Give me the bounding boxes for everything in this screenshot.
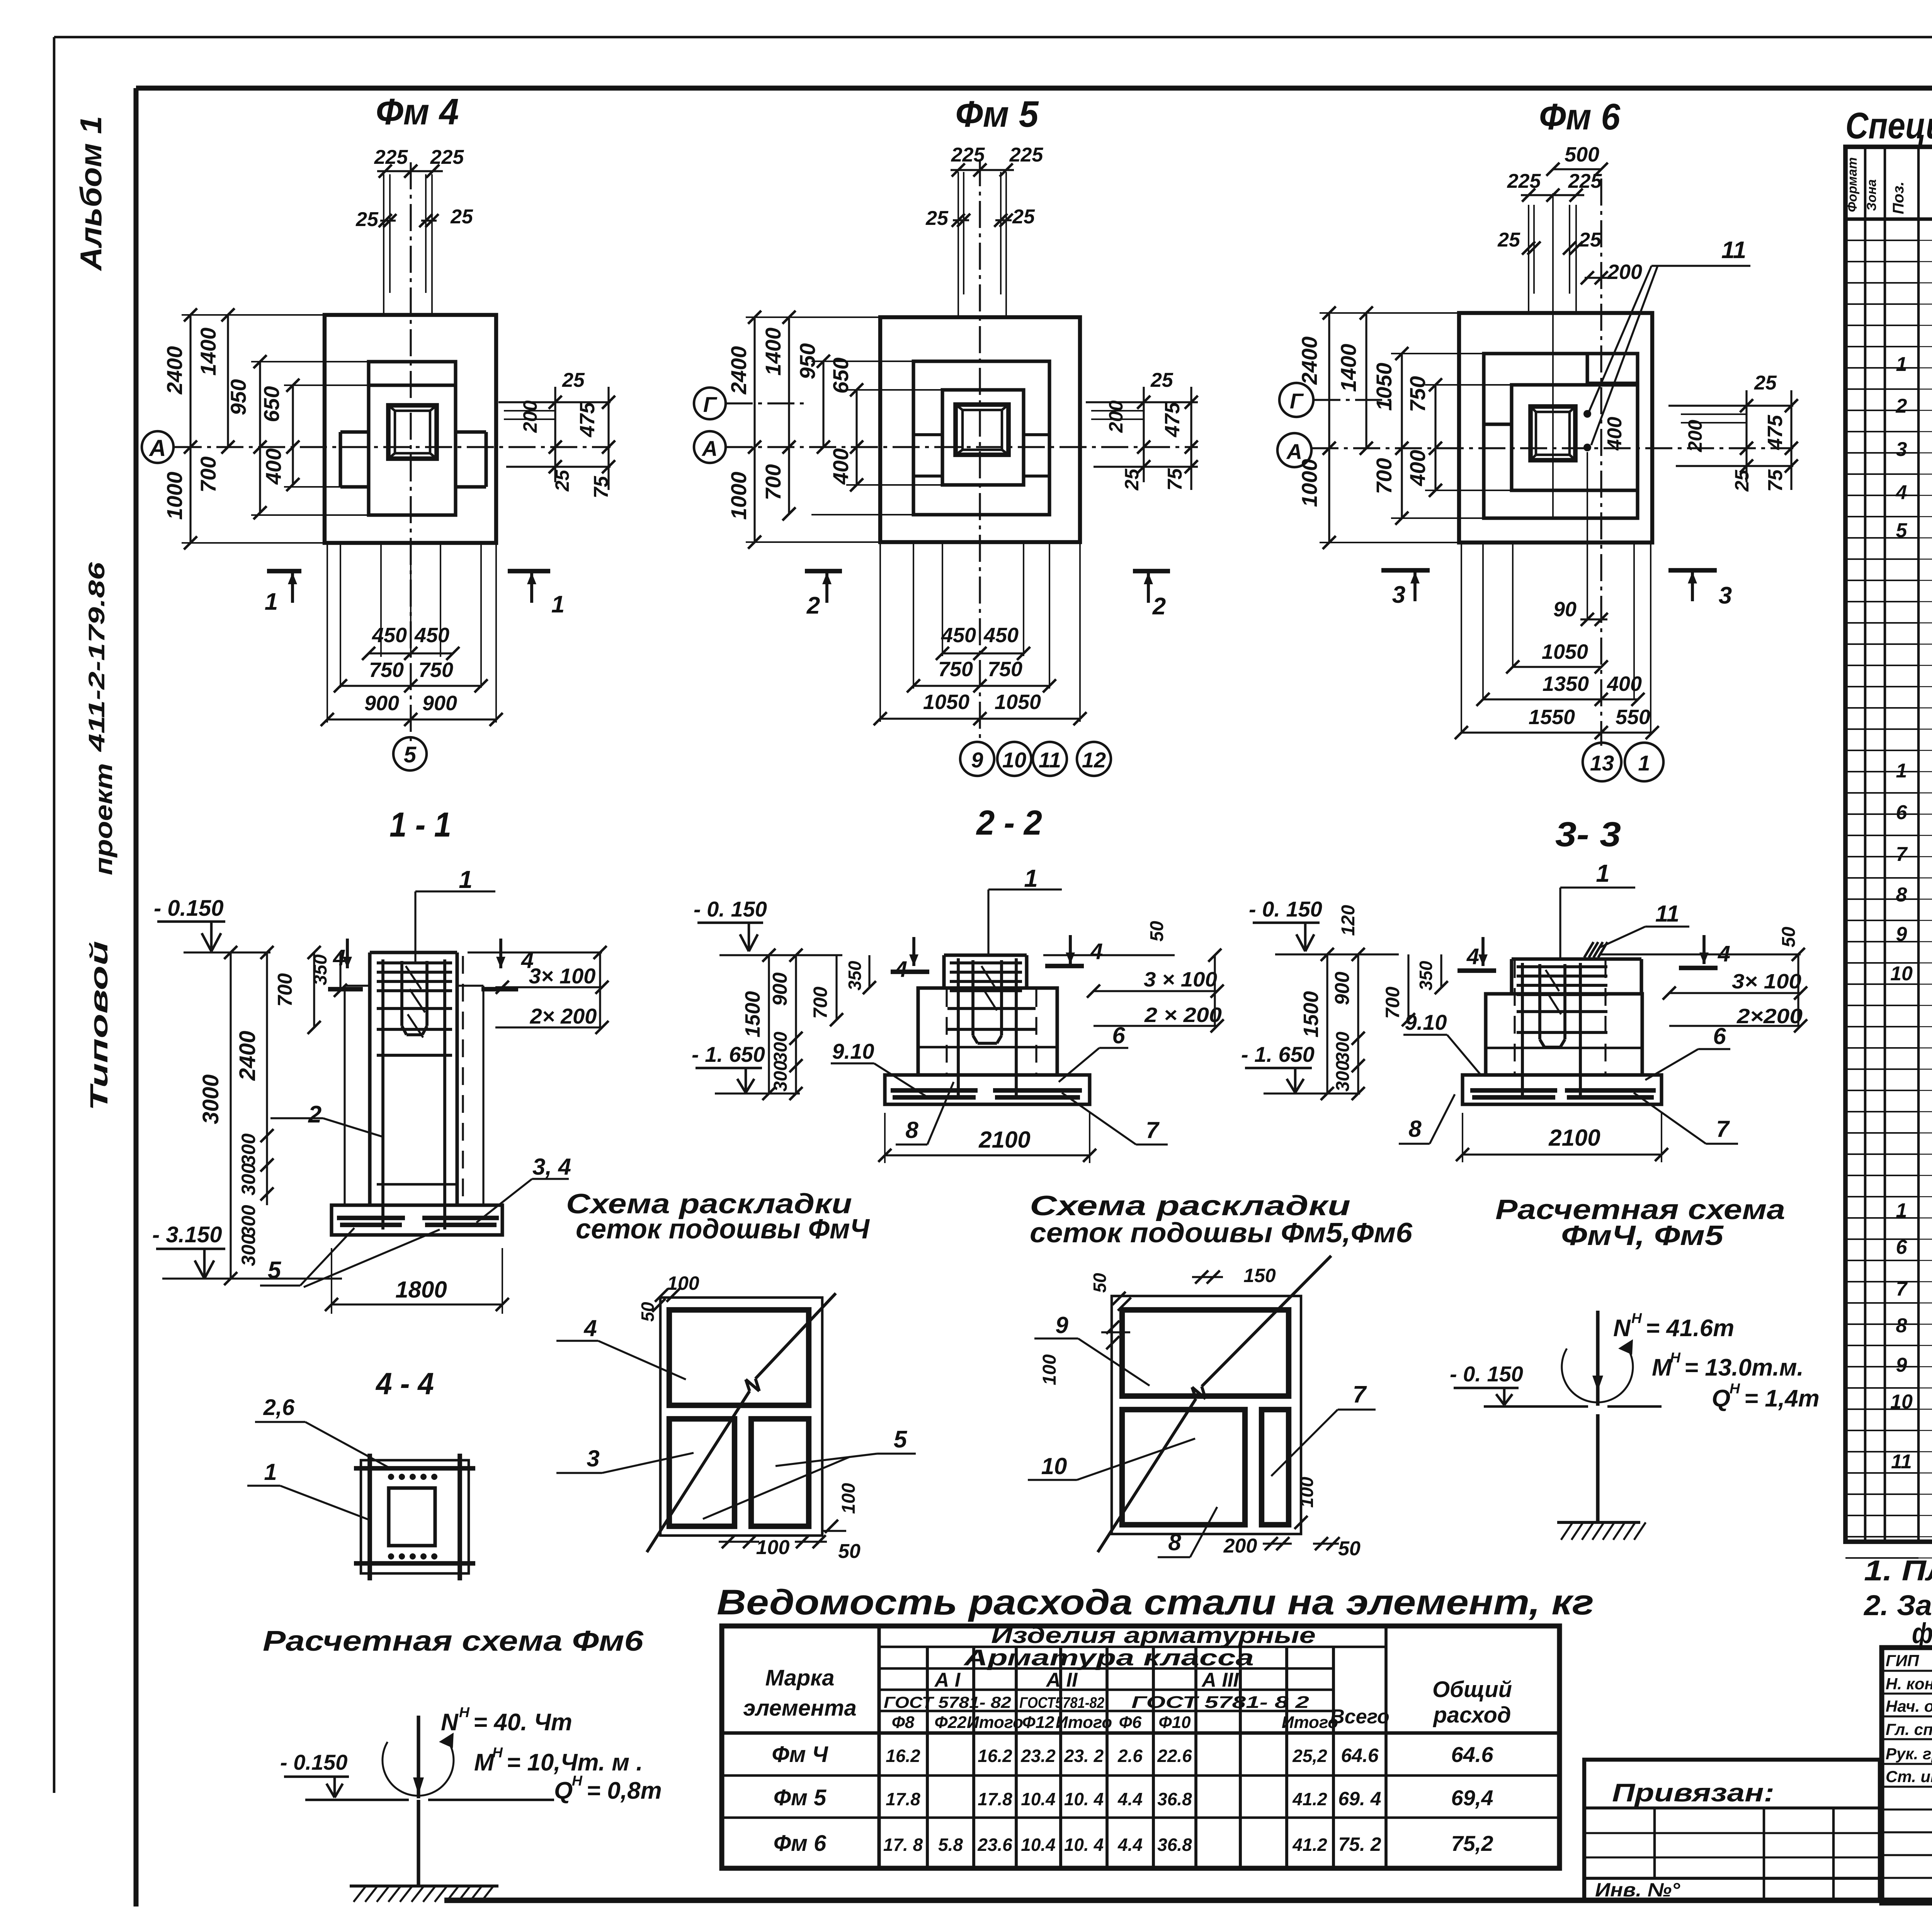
svg-text:8: 8	[1896, 884, 1907, 906]
svg-text:А II: А II	[1046, 1669, 1078, 1691]
svg-text:1 - 1: 1 - 1	[389, 806, 451, 844]
svg-text:900: 900	[769, 973, 791, 1006]
svg-text:А: А	[701, 436, 718, 461]
svg-text:225: 225	[951, 144, 985, 166]
svg-text:7: 7	[1353, 1381, 1367, 1408]
svg-text:5: 5	[404, 742, 417, 767]
svg-text:= 13.0т.м.: = 13.0т.м.	[1684, 1354, 1804, 1381]
svg-text:7: 7	[1146, 1117, 1160, 1143]
svg-text:фундаментов-35 мм: фундаментов-35 мм	[1912, 1617, 1932, 1649]
2-2 dashed hidden lines	[946, 989, 947, 1075]
svg-text:= 10,Чт. м .: = 10,Чт. м .	[507, 1749, 643, 1776]
svg-text:475: 475	[1161, 402, 1184, 437]
mesh diagram Fm4 lower-left mesh	[669, 1419, 735, 1526]
svg-text:400: 400	[261, 448, 286, 485]
svg-text:25: 25	[925, 207, 949, 230]
svg-text:9: 9	[1896, 923, 1907, 946]
Fm6 column axis lines above plan	[1528, 205, 1529, 312]
svg-text:Инв. №°: Инв. №°	[1595, 1879, 1680, 1901]
steel table verticals	[878, 1626, 881, 1868]
2-2 slab bars	[891, 1088, 978, 1093]
svg-text:900: 900	[1331, 972, 1354, 1005]
svg-text:450: 450	[941, 624, 976, 647]
design scheme Fm6 column line	[417, 1800, 420, 1886]
svg-text:700: 700	[1382, 986, 1403, 1019]
svg-text:6: 6	[1896, 801, 1908, 824]
3-3 step outline	[1486, 994, 1642, 1075]
sheet border thin outer edge	[54, 36, 1932, 39]
svg-text:750: 750	[938, 658, 973, 681]
svg-text:Фм 4: Фм 4	[376, 91, 459, 133]
svg-text:1. План фундаментов см. лис: 1. План фундаментов см. лист Кж- 2	[1864, 1554, 1932, 1587]
spec table outer border	[1845, 147, 1932, 1542]
svg-text:700: 700	[1372, 458, 1396, 494]
svg-text:17. 8: 17. 8	[883, 1835, 923, 1855]
svg-text:3, 4: 3, 4	[532, 1154, 571, 1180]
svg-text:36.8: 36.8	[1157, 1835, 1192, 1855]
svg-text:16.2: 16.2	[978, 1746, 1012, 1766]
Fm6 right dimensions	[1668, 405, 1793, 406]
Fm6 left extension lines	[1320, 312, 1459, 314]
svg-text:7: 7	[1896, 843, 1908, 866]
svg-text:9: 9	[1055, 1312, 1068, 1338]
svg-text:25: 25	[450, 206, 473, 228]
design scheme Fm6 load arrow	[417, 1716, 420, 1798]
svg-text:- 1. 650: - 1. 650	[692, 1042, 765, 1066]
svg-text:Формат: Формат	[1845, 157, 1860, 212]
svg-text:69. 4: 69. 4	[1338, 1788, 1381, 1810]
4-4 mesh bars vertical	[367, 1454, 372, 1580]
svg-text:- 0.150: - 0.150	[154, 896, 224, 921]
svg-text:64.6: 64.6	[1341, 1745, 1379, 1766]
svg-text:1: 1	[1896, 353, 1907, 376]
svg-text:А: А	[148, 435, 166, 461]
svg-text:350: 350	[845, 961, 865, 990]
svg-text:проект: проект	[90, 763, 117, 875]
Fm5 section mark 2 left	[805, 569, 842, 573]
Fm6 left dimension lines	[1328, 313, 1330, 543]
svg-text:Ст. инж: Ст. инж	[1886, 1767, 1932, 1786]
svg-text:4: 4	[1090, 939, 1103, 964]
svg-text:2400: 2400	[1297, 337, 1321, 385]
axis circle A	[142, 431, 173, 463]
svg-text:7: 7	[1716, 1116, 1730, 1142]
svg-text:10: 10	[1041, 1453, 1067, 1479]
svg-text:- 3.150: - 3.150	[152, 1222, 222, 1247]
svg-text:4: 4	[895, 957, 907, 982]
design scheme Fm4Fm5 ground hatch	[1557, 1521, 1640, 1524]
spec table verticals	[1864, 147, 1867, 1542]
svg-text:Ф22: Ф22	[934, 1713, 967, 1732]
design scheme Fm4Fm5 base line	[1484, 1405, 1588, 1408]
svg-text:4.4: 4.4	[1117, 1835, 1143, 1855]
svg-text:25: 25	[1497, 229, 1520, 251]
svg-text:17.8: 17.8	[978, 1789, 1012, 1809]
svg-text:Г: Г	[1290, 389, 1304, 413]
svg-text:350: 350	[310, 954, 331, 985]
svg-text:Всего: Всего	[1330, 1706, 1389, 1728]
1-1 pit outline	[345, 985, 370, 986]
svg-text:2400: 2400	[235, 1031, 260, 1081]
svg-text:75: 75	[590, 476, 612, 498]
Fm4 left extension lines	[182, 314, 325, 316]
svg-text:4: 4	[1896, 481, 1907, 504]
svg-text:10: 10	[1890, 1391, 1913, 1413]
svg-text:А III: А III	[1201, 1669, 1239, 1691]
Fm4 right dimensions	[498, 401, 611, 403]
svg-text:H: H	[572, 1772, 583, 1789]
svg-text:100: 100	[1039, 1354, 1060, 1385]
Fm6 axis A horizontal	[1311, 447, 1793, 449]
svg-text:23. 2: 23. 2	[1064, 1746, 1104, 1766]
svg-text:Типовой: Типовой	[85, 941, 113, 1111]
Fm5 column axis lines above plan	[957, 172, 959, 317]
svg-text:400: 400	[828, 448, 853, 485]
svg-text:- 1. 650: - 1. 650	[1241, 1042, 1315, 1066]
svg-text:= 41.6т: = 41.6т	[1646, 1315, 1734, 1342]
svg-text:12: 12	[1082, 748, 1106, 772]
svg-text:64.6: 64.6	[1451, 1742, 1494, 1767]
svg-text:75. 2: 75. 2	[1338, 1833, 1381, 1855]
mesh diagram Fm5 lower-right mesh	[1262, 1410, 1289, 1525]
3-3 top level line	[1275, 953, 1399, 955]
svg-text:Ф12: Ф12	[1022, 1713, 1054, 1732]
svg-text:3 × 100: 3 × 100	[1144, 968, 1217, 991]
svg-text:50: 50	[838, 1540, 861, 1563]
svg-text:2× 200: 2× 200	[530, 1004, 597, 1028]
Fm4 axis A horizontal line	[175, 446, 611, 448]
4-4 outer mesh outline	[361, 1460, 469, 1573]
Fm4 axis circle 5 bottom	[393, 737, 427, 770]
svg-text:Изделия арматурные: Изделия арматурные	[991, 1623, 1316, 1648]
svg-text:Марка: Марка	[765, 1665, 834, 1690]
svg-text:4: 4	[583, 1315, 597, 1341]
svg-text:9: 9	[1896, 1354, 1907, 1376]
2-2 column top	[944, 953, 1027, 957]
svg-text:Гл. спец.: Гл. спец.	[1886, 1720, 1932, 1738]
svg-text:22.6: 22.6	[1157, 1746, 1192, 1766]
svg-text:1: 1	[1638, 751, 1650, 775]
svg-text:2: 2	[308, 1101, 321, 1128]
svg-text:25: 25	[1754, 372, 1777, 394]
svg-text:700: 700	[196, 456, 220, 492]
1-1 footing slab	[332, 1205, 502, 1235]
svg-text:Рук. гр.: Рук. гр.	[1886, 1745, 1932, 1763]
svg-text:950: 950	[226, 379, 250, 415]
svg-text:сеток подошвы ФмЧ: сеток подошвы ФмЧ	[576, 1214, 870, 1245]
svg-text:Поз.: Поз.	[1890, 182, 1907, 214]
svg-text:2×200: 2×200	[1736, 1005, 1803, 1028]
svg-text:2100: 2100	[978, 1127, 1030, 1153]
svg-text:3- 3: 3- 3	[1555, 815, 1621, 854]
2-2 left dims	[768, 955, 770, 1094]
svg-text:300: 300	[1333, 1032, 1353, 1063]
Fm4 left dimension lines	[189, 315, 191, 543]
svg-text:Расчетная схема Фм6: Расчетная схема Фм6	[263, 1625, 644, 1657]
Fm4 section mark 1 right	[508, 569, 550, 573]
svg-text:225: 225	[1507, 170, 1541, 192]
svg-text:25: 25	[1150, 369, 1173, 391]
svg-text:3: 3	[1896, 438, 1907, 461]
Fm6 section mark 3 right	[1668, 568, 1717, 573]
svg-text:411-2-179.86: 411-2-179.86	[84, 562, 109, 752]
svg-text:N: N	[1613, 1315, 1631, 1342]
svg-text:450: 450	[983, 624, 1019, 647]
svg-text:25: 25	[1578, 229, 1602, 251]
svg-text:Q: Q	[1712, 1385, 1730, 1412]
svg-text:200: 200	[1684, 420, 1706, 452]
svg-text:ГОСТ 5781- 82: ГОСТ 5781- 82	[884, 1693, 1011, 1711]
svg-text:475: 475	[576, 402, 599, 437]
1-1 slab reinforcement bars	[337, 1216, 405, 1220]
svg-text:400: 400	[1604, 417, 1626, 451]
svg-text:расход: расход	[1432, 1702, 1511, 1728]
svg-text:25: 25	[355, 208, 379, 231]
svg-text:25,2: 25,2	[1292, 1746, 1327, 1766]
svg-text:100: 100	[838, 1483, 859, 1514]
Fm4 bottom extension lines	[327, 543, 328, 723]
svg-text:550: 550	[1616, 706, 1650, 729]
svg-text:100: 100	[756, 1536, 790, 1559]
svg-text:= 1,4т: = 1,4т	[1744, 1385, 1820, 1412]
svg-text:1050: 1050	[1542, 640, 1588, 663]
svg-text:1000: 1000	[726, 472, 751, 520]
svg-text:H: H	[492, 1744, 503, 1760]
svg-text:Q: Q	[554, 1777, 573, 1804]
svg-text:225: 225	[1009, 144, 1044, 166]
Fm5 band lines	[913, 433, 942, 436]
svg-text:10.4: 10.4	[1021, 1835, 1056, 1855]
svg-text:2: 2	[806, 592, 820, 619]
svg-text:1550: 1550	[1529, 706, 1575, 729]
2-2 weld marks	[981, 966, 995, 987]
svg-text:3: 3	[1392, 582, 1405, 608]
mesh diagram Fm4 outer outline	[660, 1298, 822, 1536]
mesh diagram Fm4 lower-right mesh	[751, 1419, 809, 1526]
svg-text:25: 25	[1121, 468, 1143, 491]
svg-text:Итого: Итого	[1056, 1713, 1112, 1732]
svg-text:Зона: Зона	[1864, 179, 1879, 211]
3-3 weld zigzag symbol	[1584, 942, 1594, 957]
svg-text:2. Защитный слой для рабоче: 2. Защитный слой для рабочей арматуры по…	[1863, 1589, 1932, 1621]
svg-text:25: 25	[1012, 206, 1035, 228]
svg-text:Спецификация элементов фундаме: Спецификация элементов фундаментов ФмЧ ÷…	[1845, 105, 1932, 146]
svg-text:8: 8	[1408, 1116, 1422, 1142]
svg-text:1000: 1000	[162, 472, 187, 520]
svg-text:10: 10	[1002, 748, 1026, 772]
svg-text:41.2: 41.2	[1292, 1789, 1327, 1809]
svg-text:4.4: 4.4	[1117, 1789, 1143, 1809]
svg-text:23.6: 23.6	[977, 1835, 1012, 1855]
svg-text:1050: 1050	[1372, 363, 1396, 411]
svg-text:650: 650	[259, 386, 284, 422]
svg-text:11: 11	[1039, 748, 1061, 772]
svg-text:3× 100: 3× 100	[1732, 970, 1801, 993]
svg-text:450: 450	[414, 624, 449, 647]
1-1 left dims	[230, 952, 231, 1279]
Fm5 right dimensions	[1086, 401, 1198, 403]
2-2 footing slab	[885, 1075, 1090, 1104]
2-2 step outline	[918, 988, 1057, 1075]
design scheme Fm6 base line	[305, 1799, 409, 1801]
1-1 hidden dashed line	[462, 956, 464, 1205]
3-3 column bars	[1521, 963, 1524, 1099]
svg-text:Г: Г	[703, 392, 718, 417]
svg-text:Фм Ч: Фм Ч	[772, 1742, 828, 1767]
svg-text:75: 75	[1764, 469, 1787, 492]
svg-text:75: 75	[1164, 468, 1186, 491]
svg-text:= 0,8т: = 0,8т	[587, 1777, 662, 1804]
title block outline	[1882, 1648, 1932, 1903]
svg-text:300: 300	[238, 1234, 259, 1266]
svg-text:2,6: 2,6	[263, 1395, 295, 1420]
svg-text:Нач. отд: Нач. отд	[1886, 1697, 1932, 1715]
Fm5 left dimension lines	[753, 317, 755, 542]
svg-text:900: 900	[422, 692, 457, 715]
design scheme Fm4Fm5 load arrow	[1596, 1311, 1599, 1406]
svg-text:1800: 1800	[395, 1277, 447, 1303]
svg-text:- 0. 150: - 0. 150	[694, 897, 767, 921]
1-1 ties	[377, 961, 452, 964]
svg-text:ГИП: ГИП	[1886, 1651, 1919, 1670]
1-1 step line	[377, 1183, 457, 1186]
1-1 diagonal weld marks	[406, 966, 421, 989]
svg-text:2: 2	[1896, 395, 1907, 417]
drawing frame	[134, 88, 139, 1906]
svg-text:M: M	[474, 1749, 495, 1776]
svg-text:Арматура класса: Арматура класса	[963, 1645, 1254, 1670]
svg-text:2400: 2400	[726, 346, 751, 395]
Fm6 inner step rect	[1512, 385, 1638, 490]
svg-text:500: 500	[1565, 143, 1599, 166]
Fm6 column square	[1531, 406, 1575, 460]
3-3 dashed hidden lines	[1514, 960, 1515, 1075]
svg-text:4: 4	[1718, 941, 1730, 966]
steel table outer border	[722, 1626, 1560, 1868]
svg-text:225: 225	[1568, 170, 1602, 192]
svg-text:H: H	[1730, 1380, 1740, 1396]
mesh diagram Fm5 outer outline	[1112, 1296, 1301, 1534]
svg-text:300: 300	[770, 1032, 791, 1063]
1-1 column reinforcement bars	[381, 959, 384, 1230]
privyazan table outline	[1584, 1760, 1880, 1900]
svg-text:400: 400	[1405, 450, 1430, 486]
svg-text:Итого: Итого	[967, 1713, 1023, 1732]
svg-text:1: 1	[551, 591, 565, 618]
design scheme Fm4Fm5 moment arc	[1562, 1349, 1633, 1402]
svg-text:400: 400	[1607, 672, 1642, 696]
2-2 hairpin	[971, 960, 975, 1036]
svg-text:11: 11	[1721, 237, 1746, 264]
svg-text:50: 50	[1147, 921, 1167, 942]
svg-text:13: 13	[1590, 751, 1614, 775]
svg-text:300: 300	[238, 1133, 259, 1166]
svg-text:16.2: 16.2	[886, 1746, 920, 1766]
svg-text:1000: 1000	[1297, 459, 1321, 507]
svg-text:1400: 1400	[761, 328, 785, 376]
svg-text:10. 4: 10. 4	[1064, 1835, 1104, 1855]
signature table rows	[1882, 1670, 1932, 1672]
svg-text:17.8: 17.8	[886, 1789, 920, 1809]
svg-text:300: 300	[238, 1163, 259, 1196]
svg-text:3: 3	[587, 1446, 599, 1471]
Fm6 left small step line	[1484, 422, 1512, 426]
4-4 inner rect	[389, 1488, 435, 1546]
Fm5 column square	[956, 405, 1009, 455]
svg-text:H: H	[459, 1704, 470, 1720]
svg-text:450: 450	[372, 624, 407, 647]
3-3 top rect	[1512, 957, 1641, 961]
svg-text:2100: 2100	[1548, 1125, 1600, 1151]
2-2 top level line	[719, 954, 842, 956]
svg-text:23.2: 23.2	[1020, 1746, 1056, 1766]
3-3 weld marks	[1546, 970, 1559, 991]
svg-text:элемента: элемента	[743, 1696, 857, 1721]
svg-text:2.6: 2.6	[1117, 1746, 1143, 1766]
svg-text:2 × 200: 2 × 200	[1144, 1003, 1222, 1027]
svg-text:= 40. Чт: = 40. Чт	[473, 1709, 572, 1736]
svg-text:750: 750	[418, 658, 453, 682]
svg-text:Фм 6: Фм 6	[774, 1831, 827, 1856]
Fm4 column axis lines above plan	[383, 174, 384, 315]
svg-text:6: 6	[1896, 1236, 1908, 1259]
svg-text:4 - 4: 4 - 4	[375, 1366, 434, 1401]
spec table header row	[1845, 217, 1932, 221]
3-3 footing slab	[1463, 1075, 1662, 1104]
svg-text:Фм 6: Фм 6	[1539, 96, 1621, 138]
svg-text:1: 1	[1024, 864, 1038, 892]
svg-text:2 - 2: 2 - 2	[976, 804, 1042, 842]
svg-text:75,2: 75,2	[1451, 1831, 1493, 1855]
svg-text:Н. контр.: Н. контр.	[1886, 1675, 1932, 1693]
Fm5 axis circles G and A	[694, 388, 726, 419]
svg-text:6: 6	[1713, 1023, 1726, 1049]
svg-text:50: 50	[1338, 1537, 1361, 1560]
svg-text:1: 1	[1896, 1199, 1907, 1222]
svg-text:H: H	[1670, 1349, 1681, 1366]
svg-text:Фм 5: Фм 5	[774, 1785, 827, 1810]
svg-text:700: 700	[274, 973, 296, 1007]
svg-text:1: 1	[265, 588, 278, 615]
Fm5 bottom extension lines	[879, 542, 881, 722]
svg-text:H: H	[1631, 1310, 1642, 1326]
Fm6 middle step square	[1484, 354, 1638, 518]
svg-text:4: 4	[1466, 944, 1479, 969]
svg-text:Общий: Общий	[1432, 1677, 1512, 1702]
svg-text:ГОСТ5781-82: ГОСТ5781-82	[1019, 1694, 1104, 1711]
Fm5 inner step square	[942, 390, 1024, 485]
svg-text:25: 25	[1731, 469, 1753, 492]
svg-text:300: 300	[1333, 1061, 1353, 1092]
Fm4 section mark 1 left	[267, 569, 301, 573]
svg-text:1500: 1500	[1299, 991, 1323, 1037]
4-4 rebar dots	[388, 1474, 394, 1480]
svg-text:2: 2	[1152, 593, 1166, 620]
svg-text:9: 9	[971, 748, 983, 772]
svg-text:90: 90	[1553, 598, 1577, 621]
svg-text:10: 10	[1890, 963, 1913, 985]
mesh diagram Fm5 diagonal break line	[1098, 1399, 1196, 1552]
svg-text:1400: 1400	[1336, 344, 1361, 392]
svg-text:- 0. 150: - 0. 150	[1450, 1362, 1523, 1386]
svg-text:50: 50	[1779, 927, 1799, 947]
svg-text:Ф6: Ф6	[1119, 1713, 1142, 1732]
svg-text:69,4: 69,4	[1451, 1786, 1493, 1810]
svg-text:1: 1	[264, 1459, 277, 1485]
3-3 hairpin	[1538, 964, 1541, 1039]
svg-text:ГОСТ 5781- 8 2: ГОСТ 5781- 8 2	[1131, 1693, 1310, 1712]
svg-text:1: 1	[1596, 859, 1610, 887]
